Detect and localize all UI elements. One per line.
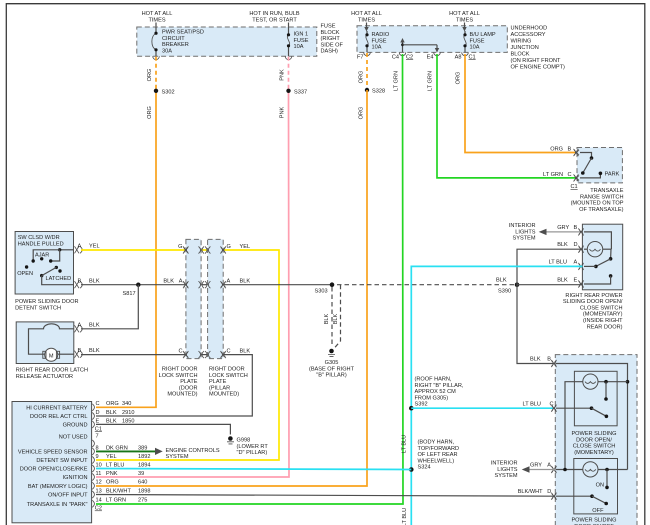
label RIGHT REAR POWER SLIDING DOOR OPEN/CLOSE SWITCH	[563, 293, 623, 331]
svg-text:DOOR OPEN/CLOSE/RKE: DOOR OPEN/CLOSE/RKE	[20, 467, 88, 473]
label right door lock switch plate (door mounted)	[159, 367, 198, 398]
svg-text:S337: S337	[294, 89, 307, 95]
svg-text:D: D	[96, 410, 100, 416]
wire LT GRN E4 to transaxle range switch C	[437, 54, 576, 178]
detent switch contacts	[17, 248, 73, 285]
svg-text:(DOOR: (DOOR	[179, 385, 198, 391]
svg-text:ORG: ORG	[106, 480, 119, 486]
wire PNK from S337 to pin 11	[96, 91, 289, 477]
wire BLK between plates (A row)	[201, 284, 208, 286]
right door lock switch plate (door mounted) dashed box	[186, 239, 201, 358]
fuse block (right side of dash) dashed box	[137, 27, 317, 56]
wire YEL from plate G down to pin 9	[96, 250, 279, 460]
wire feed arrow into radio fuse	[364, 23, 368, 32]
label right door lock switch plate (pillar mounted)	[209, 367, 248, 398]
svg-text:UNDERHOOD: UNDERHOOD	[511, 26, 548, 32]
svg-text:BLK: BLK	[496, 278, 507, 284]
splice S324	[409, 467, 414, 472]
svg-text:PARK: PARK	[605, 172, 620, 178]
svg-text:389: 389	[138, 445, 147, 451]
fuse RADIO 10A	[365, 31, 389, 52]
svg-text:275: 275	[138, 498, 147, 504]
svg-text:HOT AT ALL: HOT AT ALL	[449, 11, 480, 17]
terminal C row symbols on plates	[183, 351, 226, 358]
svg-text:CLOSE SWITCH: CLOSE SWITCH	[573, 444, 616, 450]
pin 14	[92, 498, 147, 508]
labels G row	[178, 244, 250, 250]
svg-text:E4: E4	[427, 54, 434, 60]
svg-text:RADIO: RADIO	[372, 32, 390, 38]
module pin function labels	[18, 405, 88, 508]
svg-text:BLK: BLK	[557, 278, 568, 284]
terminal A row symbols on plates	[183, 281, 226, 288]
svg-text:BLK: BLK	[530, 357, 541, 363]
svg-text:C4: C4	[392, 54, 399, 60]
svg-text:ON/OFF INPUT: ON/OFF INPUT	[48, 493, 88, 499]
svg-text:SIDE OF: SIDE OF	[321, 42, 344, 48]
terminal B of detent switch	[75, 279, 100, 289]
wire PNK dashed from IGN1 fuse to S337	[288, 57, 290, 91]
label (BODY HARN...) S324	[418, 440, 460, 471]
svg-text:RIGHT REAR DOOR LATCH: RIGHT REAR DOOR LATCH	[16, 368, 88, 374]
svg-text:BLK/WHT: BLK/WHT	[106, 488, 131, 494]
svg-text:PNK: PNK	[280, 106, 286, 118]
svg-text:11: 11	[96, 471, 102, 477]
switch contacts inside transaxle range switch	[580, 153, 620, 178]
underhood accessory wiring junction block dashed box	[357, 26, 507, 53]
svg-text:F7: F7	[357, 54, 364, 60]
svg-text:JUNCTION: JUNCTION	[511, 45, 539, 51]
label POWER SLIDING DOOR OPEN/CLOSE SWITCH (MOMENTARY)	[571, 431, 616, 456]
connector C2 label	[95, 506, 102, 512]
svg-text:OF ENGINE COMPT): OF ENGINE COMPT)	[511, 65, 566, 71]
svg-text:REAR DOOR): REAR DOOR)	[587, 324, 623, 330]
svg-text:PLATE: PLATE	[180, 379, 198, 385]
label LT GRN rotated C4	[394, 71, 400, 91]
svg-text:(MOMENTARY): (MOMENTARY)	[574, 450, 614, 456]
svg-text:GRY: GRY	[530, 463, 542, 469]
connector cup at IGN1 output	[285, 56, 292, 59]
open/close switch inner box	[574, 371, 617, 426]
internal junction wire with up arrow, C4 to E4 tee	[400, 38, 439, 53]
svg-text:ON: ON	[596, 483, 604, 489]
svg-text:A8: A8	[455, 54, 462, 60]
svg-text:E: E	[96, 418, 100, 424]
svg-text:HANDLE PULLED: HANDLE PULLED	[18, 241, 64, 247]
connector cup C4 / C2	[392, 52, 413, 60]
connector cup F7	[357, 52, 370, 60]
svg-text:A: A	[78, 323, 82, 329]
motor M symbol	[43, 348, 60, 361]
svg-text:PLATE: PLATE	[209, 379, 227, 385]
svg-text:LT BLU: LT BLU	[523, 402, 541, 408]
splice S328	[365, 88, 385, 95]
svg-text:BLK: BLK	[324, 313, 330, 324]
label HOT IN RUN, BULB TEST, OR START	[249, 11, 300, 24]
svg-text:GRY: GRY	[557, 225, 569, 231]
svg-text:HI CURRENT BATTERY: HI CURRENT BATTERY	[26, 405, 87, 411]
svg-text:RELEASE ACTUATOR: RELEASE ACTUATOR	[16, 374, 73, 380]
terminal C of transaxle range switch	[543, 172, 579, 182]
connector C1 label of transaxle range switch	[571, 184, 578, 190]
wire ORG dashed from circuit breaker to S302	[155, 57, 157, 91]
label LT GRN rotated E4	[428, 71, 434, 91]
wire feed arrow into b/u lamp fuse	[462, 23, 466, 32]
lamp of on/off switch	[556, 462, 628, 477]
svg-text:LT BLU: LT BLU	[106, 462, 124, 468]
svg-text:TEST, OR START: TEST, OR START	[252, 18, 297, 24]
svg-text:TIMES: TIMES	[148, 18, 165, 24]
terminal B of transaxle range switch	[550, 146, 579, 156]
svg-text:LT BLU: LT BLU	[402, 435, 408, 453]
label HOT AT ALL TIMES (radio fuse)	[351, 11, 382, 24]
svg-text:B: B	[574, 225, 578, 231]
svg-text:(PILLAR: (PILLAR	[209, 385, 230, 391]
svg-text:YEL: YEL	[240, 244, 251, 250]
label ORG rotated (upper)	[147, 69, 153, 82]
svg-text:A: A	[179, 279, 183, 285]
pin 7	[92, 434, 98, 447]
label LT BLU rotated (mid)	[402, 435, 408, 453]
svg-text:10A: 10A	[470, 45, 480, 51]
svg-text:DOOR OPEN/: DOOR OPEN/	[576, 437, 612, 443]
label BLK rotated right	[333, 313, 339, 324]
svg-text:BAT (MEMORY LOGIC): BAT (MEMORY LOGIC)	[28, 484, 88, 490]
terminal B of actuator	[75, 348, 100, 358]
svg-text:YEL: YEL	[106, 454, 117, 460]
svg-text:SYSTEM: SYSTEM	[166, 454, 189, 460]
svg-text:OPEN: OPEN	[17, 271, 33, 277]
svg-text:DASH): DASH)	[321, 49, 339, 55]
wire ORG from S302 to pin C	[96, 91, 156, 408]
label ORG rotated F7 upper	[359, 71, 365, 84]
wire BLK pin E to ground G998	[96, 424, 230, 434]
svg-text:(LOWER RT: (LOWER RT	[237, 444, 269, 450]
svg-text:GROUND: GROUND	[63, 423, 88, 429]
svg-text:1894: 1894	[138, 462, 150, 468]
svg-text:C2: C2	[95, 506, 102, 512]
svg-text:"D" PILLAR): "D" PILLAR)	[237, 450, 268, 456]
svg-text:ORG: ORG	[106, 401, 119, 407]
svg-text:E: E	[574, 278, 578, 284]
svg-text:LT GRN: LT GRN	[543, 172, 563, 178]
svg-text:(ON RIGHT FRONT: (ON RIGHT FRONT	[511, 58, 562, 64]
label HOT AT ALL TIMES (left)	[142, 11, 173, 24]
svg-text:INTERIOR: INTERIOR	[491, 461, 518, 467]
wire BLK dashed S303 down to G305	[331, 287, 333, 347]
svg-text:ORG: ORG	[359, 71, 365, 84]
svg-text:D: D	[547, 489, 551, 495]
right rear power sliding door open/close switch box	[582, 224, 622, 290]
svg-text:C1: C1	[95, 426, 102, 432]
svg-text:LT BLU: LT BLU	[549, 260, 567, 266]
svg-text:FUSE: FUSE	[294, 38, 309, 44]
svg-text:RIGHT REAR POWER: RIGHT REAR POWER	[565, 293, 622, 299]
svg-text:DK GRN: DK GRN	[106, 445, 128, 451]
svg-text:DETENT SW INPUT: DETENT SW INPUT	[36, 458, 88, 464]
svg-text:ORG: ORG	[147, 69, 153, 82]
svg-text:HOT IN RUN, BULB: HOT IN RUN, BULB	[249, 11, 300, 17]
svg-text:ACCESSORY: ACCESSORY	[511, 32, 546, 38]
svg-text:C1: C1	[469, 54, 476, 60]
svg-text:10A: 10A	[372, 45, 382, 51]
svg-text:ORG: ORG	[550, 146, 563, 152]
svg-text:RIGHT DOOR: RIGHT DOOR	[162, 367, 198, 373]
label LT BLU rotated (bottom)	[402, 508, 408, 525]
svg-text:BLK: BLK	[89, 323, 100, 329]
splice S392	[409, 406, 414, 411]
svg-text:ORG: ORG	[359, 107, 365, 120]
svg-text:LT GRN: LT GRN	[106, 498, 126, 504]
svg-text:LT GRN: LT GRN	[428, 71, 434, 91]
svg-text:MOUNTED): MOUNTED)	[167, 392, 197, 398]
svg-text:BREAKER: BREAKER	[162, 42, 189, 48]
svg-text:G: G	[178, 244, 182, 250]
svg-text:C: C	[227, 349, 231, 355]
svg-text:HOT AT ALL: HOT AT ALL	[351, 11, 382, 17]
svg-text:SYSTEM: SYSTEM	[494, 473, 517, 479]
wire BLK between plates C row	[201, 354, 208, 356]
svg-text:"B" PILLAR): "B" PILLAR)	[316, 373, 347, 379]
svg-text:FUSE: FUSE	[372, 38, 387, 44]
svg-text:(INSIDE RIGHT: (INSIDE RIGHT	[583, 318, 623, 324]
wire ORG F7 solid from S328 to pin 12	[96, 90, 367, 486]
svg-text:LT GRN: LT GRN	[394, 71, 400, 91]
svg-text:PNK: PNK	[106, 471, 118, 477]
svg-text:SYSTEM: SYSTEM	[512, 236, 535, 242]
svg-text:OF LEFT REAR: OF LEFT REAR	[418, 452, 458, 458]
open/close switch contacts	[556, 382, 608, 418]
pin 10	[92, 462, 150, 472]
label ORG rotated (lower)	[147, 106, 153, 119]
svg-text:B: B	[547, 357, 551, 363]
label ORG rotated F7 lower	[359, 107, 365, 120]
wire LT BLU from right rear switch A down the B pillar	[411, 266, 582, 525]
connector cup E4	[427, 52, 441, 60]
svg-text:RANGE SWITCH: RANGE SWITCH	[580, 194, 624, 200]
svg-text:G: G	[227, 244, 231, 250]
wire BLK dashed S303 to S390	[337, 284, 517, 286]
svg-text:SLIDING DOOR OPEN/: SLIDING DOOR OPEN/	[563, 299, 623, 305]
svg-text:BLK: BLK	[89, 348, 100, 354]
svg-text:(BASE OF RIGHT: (BASE OF RIGHT	[309, 366, 355, 372]
svg-text:BLK: BLK	[333, 313, 339, 324]
pin 9	[92, 454, 150, 464]
wire feed stub to IGN 1 fuse	[288, 23, 290, 29]
wire ORG A8 to transaxle range switch B	[465, 54, 576, 153]
wire LT BLU S392 to big box C	[411, 402, 555, 409]
svg-text:BLK: BLK	[163, 279, 174, 285]
terminals of big dashed box	[551, 360, 556, 500]
svg-text:SW CLSD W/DR: SW CLSD W/DR	[18, 235, 60, 241]
connector cup A8 / C1	[455, 52, 476, 60]
wire BLK actuator B to plates C row	[81, 354, 186, 356]
lamp of open/close switch	[565, 374, 628, 470]
svg-text:S817: S817	[123, 291, 136, 297]
svg-text:13: 13	[96, 488, 102, 494]
label ORG rotated A8	[456, 72, 462, 85]
svg-text:S324: S324	[418, 465, 431, 471]
svg-text:S303: S303	[315, 289, 328, 295]
svg-text:1892: 1892	[138, 454, 150, 460]
svg-text:BLK: BLK	[106, 410, 117, 416]
label FUSE BLOCK (RIGHT SIDE OF DASH)	[321, 24, 344, 55]
right door lock switch plate (pillar mounted) dashed box	[208, 239, 224, 358]
svg-text:FROM G305): FROM G305)	[415, 395, 449, 401]
svg-text:LIGHTS: LIGHTS	[515, 229, 535, 235]
svg-text:FUSE: FUSE	[321, 24, 336, 30]
interior lights system arrow (top)	[509, 223, 583, 242]
svg-text:B: B	[78, 279, 82, 285]
svg-text:IGNITION: IGNITION	[63, 475, 88, 481]
label UNDERHOOD ACCESSORY WIRING JUNCTION BLOCK	[511, 26, 566, 71]
svg-text:VEHICLE SPEED SENSOR: VEHICLE SPEED SENSOR	[18, 450, 88, 456]
on/off switch inner box	[574, 459, 618, 514]
svg-text:POWER SLIDING DOOR: POWER SLIDING DOOR	[15, 299, 78, 305]
svg-text:A: A	[78, 244, 82, 250]
svg-text:TOP/FORWARD: TOP/FORWARD	[418, 446, 460, 452]
wire LT BLU S324 to pin 10	[96, 469, 411, 470]
on/off switch contacts	[556, 470, 609, 515]
feed wire B inside big box	[556, 364, 629, 470]
svg-text:12: 12	[96, 480, 102, 486]
svg-text:ENGINE CONTROLS: ENGINE CONTROLS	[166, 448, 220, 454]
actuator internal loop with crossover hump	[29, 324, 74, 354]
wire feed stub to circuit breaker	[155, 23, 157, 29]
interior lights system arrow (bottom)	[491, 461, 556, 480]
splice S303	[315, 282, 335, 294]
pin E	[92, 418, 134, 428]
label POWER SLIDING DOOR ON/OFF SWITCH	[571, 518, 616, 525]
label TRANSAXLE RANGE SWITCH (MOUNTED ON TOP OF TRANSAXLE)	[571, 188, 624, 213]
svg-text:BLOCK: BLOCK	[321, 30, 340, 36]
svg-text:NOT USED: NOT USED	[59, 434, 88, 440]
label BLK rotated left	[324, 313, 330, 324]
svg-text:G998: G998	[237, 438, 251, 444]
svg-text:ORG: ORG	[456, 72, 462, 85]
svg-text:C1: C1	[571, 184, 578, 190]
svg-text:IGN 1: IGN 1	[294, 32, 309, 38]
power sliding door detent switch box	[15, 232, 73, 295]
power sliding door switches big dashed box	[555, 355, 637, 525]
svg-text:ORG: ORG	[147, 106, 153, 119]
power sliding door module connector box	[12, 402, 92, 523]
lamp and switch inside right rear switch	[584, 232, 612, 284]
terminal A of detent switch	[75, 244, 100, 254]
svg-text:C2: C2	[406, 54, 413, 60]
svg-text:BLK/WHT: BLK/WHT	[518, 489, 543, 495]
svg-text:7: 7	[96, 434, 99, 440]
svg-text:BLK: BLK	[240, 279, 251, 285]
svg-text:C: C	[568, 172, 572, 178]
pin C	[92, 401, 131, 411]
label (ROOF HARN...) S392	[415, 377, 464, 408]
wire BLK S390 to terminal E of right rear switch	[517, 278, 582, 285]
svg-text:M: M	[49, 353, 54, 359]
label BLK B at big box	[530, 357, 551, 363]
wire BLK dashed branch down to G305	[334, 285, 341, 349]
labels A row	[163, 279, 250, 285]
label PNK rotated (lower)	[280, 106, 286, 118]
svg-text:10A: 10A	[294, 44, 304, 50]
svg-text:C: C	[178, 349, 182, 355]
svg-text:DOOR REL ACT CTRL: DOOR REL ACT CTRL	[30, 414, 88, 420]
connector C1 label	[95, 426, 102, 432]
svg-text:FUSE: FUSE	[470, 38, 485, 44]
right rear door latch release actuator box	[16, 322, 74, 364]
ground G998	[227, 436, 268, 456]
svg-text:OF TRANSAXLE): OF TRANSAXLE)	[579, 207, 623, 213]
svg-text:B: B	[568, 146, 572, 152]
splice S302	[154, 89, 175, 96]
svg-text:(RIGHT: (RIGHT	[321, 36, 341, 42]
splice S390	[496, 278, 519, 295]
svg-text:TRANSAXLE: TRANSAXLE	[590, 188, 624, 194]
svg-text:640: 640	[138, 480, 147, 486]
svg-text:BLK: BLK	[557, 242, 568, 248]
wire BLK plate A to splice S303	[223, 284, 332, 286]
svg-text:LT BLU: LT BLU	[402, 508, 408, 525]
svg-text:BLK: BLK	[89, 279, 100, 285]
terminal G row symbols on plates	[183, 247, 226, 254]
wire BLK/WHT pin 13 to big box D	[96, 489, 555, 496]
transaxle range switch dashed box	[577, 148, 622, 183]
svg-text:RIGHT "B" PILLAR,: RIGHT "B" PILLAR,	[415, 383, 464, 389]
svg-text:(BODY HARN,: (BODY HARN,	[418, 440, 455, 446]
svg-text:WIRING: WIRING	[511, 39, 532, 45]
svg-text:A: A	[574, 260, 578, 266]
wire BLK detent B to S817 to plates	[81, 284, 186, 286]
label LT BLU A	[549, 260, 578, 266]
svg-text:LATCHED: LATCHED	[46, 276, 72, 282]
label HOT AT ALL TIMES (b/u lamp fuse)	[449, 11, 480, 24]
svg-text:9: 9	[96, 454, 99, 460]
pin 8 wire DK GRN to engine controls system	[92, 445, 220, 460]
svg-text:10: 10	[96, 462, 102, 468]
svg-text:LOCK SWITCH: LOCK SWITCH	[159, 373, 198, 379]
svg-text:HOT AT ALL: HOT AT ALL	[142, 11, 173, 17]
svg-text:DETENT SWITCH: DETENT SWITCH	[15, 305, 61, 311]
fuse B/U LAMP 10A	[463, 31, 495, 52]
svg-text:LIGHTS: LIGHTS	[497, 467, 517, 473]
svg-text:BLOCK: BLOCK	[511, 52, 530, 58]
svg-text:OFF: OFF	[592, 508, 604, 514]
svg-text:30A: 30A	[162, 48, 172, 54]
labels C row	[178, 349, 250, 355]
fuse IGN 1 10A	[287, 27, 309, 56]
svg-text:POWER SLIDING: POWER SLIDING	[571, 518, 616, 524]
svg-text:PNK: PNK	[280, 69, 286, 81]
pin 12	[92, 480, 147, 490]
wire YEL detent A to switch plates	[81, 249, 186, 251]
svg-text:LOCK SWITCH: LOCK SWITCH	[209, 373, 248, 379]
svg-text:WHEELWELL): WHEELWELL)	[418, 458, 455, 464]
splice S817	[123, 283, 141, 298]
svg-text:RIGHT DOOR: RIGHT DOOR	[209, 367, 245, 373]
svg-text:B/U LAMP: B/U LAMP	[470, 32, 496, 38]
ground G305	[309, 349, 355, 379]
wire BLK S817 down to actuator A	[81, 285, 138, 329]
terminals of right rear switch	[578, 228, 583, 287]
title SW CLSD W/DR HANDLE PULLED	[18, 235, 64, 247]
pin 13	[92, 488, 150, 498]
svg-text:S392: S392	[415, 402, 428, 408]
svg-text:G305: G305	[325, 360, 339, 366]
wire YEL between plates	[201, 249, 208, 251]
svg-text:D: D	[574, 242, 578, 248]
svg-text:CLOSE SWITCH: CLOSE SWITCH	[580, 305, 623, 311]
svg-text:1850: 1850	[122, 418, 134, 424]
